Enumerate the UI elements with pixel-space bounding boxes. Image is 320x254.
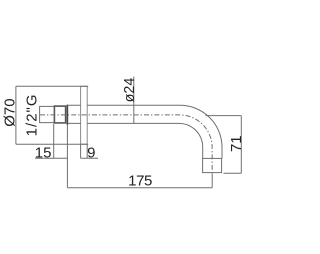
dimension 71: top extension line (206, 115, 242, 117)
end fitting box (203, 158, 222, 172)
svg-text:ø24: ø24 (122, 78, 138, 103)
tube outer (top) edge with bend (68, 105, 222, 158)
svg-text:71: 71 (228, 135, 245, 152)
svg-text:1/2"G: 1/2"G (23, 93, 40, 136)
dimension 15: left extension line (53, 124, 55, 158)
centerline of arm (dash-dot), drawn on top (40, 115, 212, 173)
dimension 9: left extension line (80, 144, 82, 158)
wall face thick line (66, 105, 68, 125)
dimension 9: right extension line (86, 144, 88, 158)
svg-text:175: 175 (128, 173, 152, 190)
svg-text:15: 15 (35, 144, 52, 161)
dimension 9: dimension line (81, 157, 98, 159)
tube inner (bottom) edge with bend (68, 123, 203, 158)
dimension 71: bottom extension line (224, 172, 242, 174)
dimension 71: dimension line (240, 116, 242, 174)
wall flange (escutcheon) body (81, 86, 88, 144)
dimension 175: dimension line (67, 187, 212, 189)
dimension ø24: extension line (133, 77, 135, 124)
shared extension line (wall face to 175 dimension) (66, 125, 68, 188)
dimension Ø70: bottom extension line (16, 143, 88, 145)
svg-text:Ø70: Ø70 (1, 98, 18, 126)
dimension 175: right extension line below end fitting (211, 173, 213, 187)
dimension Ø70: dimension line (15, 86, 17, 144)
threaded section (54, 106, 65, 123)
svg-text:9: 9 (87, 144, 95, 161)
connector hex body (40, 106, 55, 122)
dimension 15: dimension line (35, 157, 67, 159)
dimension Ø70: top extension line (16, 85, 88, 87)
